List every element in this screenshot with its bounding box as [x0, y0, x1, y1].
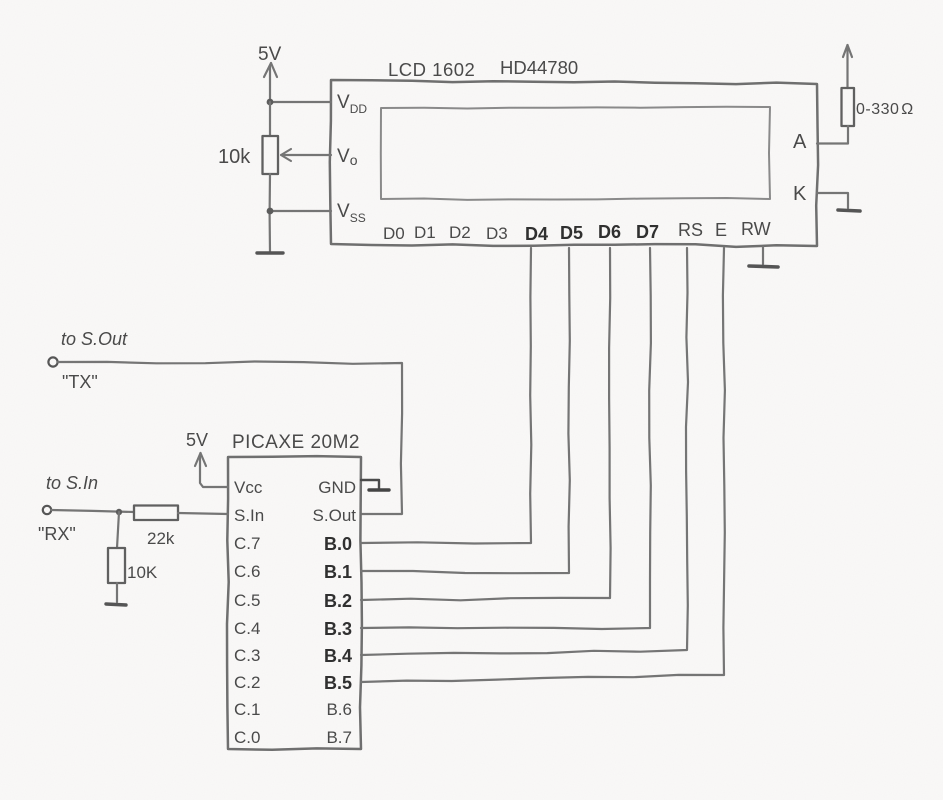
- svg-text:C.4: C.4: [234, 619, 260, 638]
- wire node to potentiometer top: [269, 102, 271, 136]
- IC U1 PICAXE 20M2 outline: [227, 456, 362, 750]
- potentiometer R1 10k body: [263, 136, 279, 174]
- node RX junction: [116, 509, 122, 515]
- resistor R2 0-330 body: [842, 88, 855, 126]
- LCD display window: [381, 107, 770, 200]
- ground (RW): [762, 247, 764, 264]
- wire GND pin stub: [361, 480, 379, 489]
- svg-text:B.0: B.0: [324, 534, 352, 554]
- svg-text:E: E: [715, 220, 727, 240]
- supply arrow (backlight): [843, 45, 848, 57]
- svg-text:B.2: B.2: [324, 591, 352, 611]
- ground (K): [838, 210, 860, 211]
- node VDD junction: [267, 99, 274, 106]
- svg-text:"TX": "TX": [62, 372, 98, 392]
- svg-text:D4: D4: [525, 224, 548, 244]
- wire 10K to ground: [116, 583, 118, 602]
- svg-text:GND: GND: [318, 478, 356, 497]
- svg-text:"RX": "RX": [38, 524, 76, 544]
- svg-text:D5: D5: [560, 223, 583, 243]
- terminal RX (open circle): [43, 506, 51, 514]
- wire B.3 to D7: [361, 248, 651, 629]
- svg-text:C.2: C.2: [234, 673, 260, 692]
- supply arrow 5V to Vcc: [195, 453, 201, 466]
- svg-text:5V: 5V: [258, 44, 282, 65]
- wire A to resistor: [817, 126, 848, 144]
- resistor R4 10K body: [108, 548, 125, 583]
- svg-text:C.3: C.3: [234, 646, 260, 665]
- svg-text:to S.Out: to S.Out: [61, 329, 128, 349]
- svg-text:5V: 5V: [186, 430, 208, 450]
- resistor R3 22k body: [134, 506, 178, 521]
- svg-text:C.7: C.7: [234, 534, 260, 553]
- wire TX to S.Out: [58, 362, 402, 515]
- svg-text:D7: D7: [636, 222, 659, 242]
- svg-text:S.Out: S.Out: [313, 506, 357, 525]
- svg-text:C.6: C.6: [234, 562, 260, 581]
- wire B.2 to D6: [361, 248, 611, 600]
- wire VSS to node: [270, 210, 331, 212]
- ground (GND pin): [369, 488, 389, 491]
- svg-text:Vcc: Vcc: [234, 478, 263, 497]
- svg-text:10k: 10k: [218, 146, 251, 168]
- wire RX to resistor 22k: [51, 510, 134, 512]
- wire node to resistor 10K: [117, 512, 119, 548]
- ground (potentiometer): [257, 251, 283, 254]
- svg-text:D2: D2: [449, 223, 471, 242]
- svg-text:PICAXE 20M2: PICAXE 20M2: [232, 432, 360, 453]
- svg-text:B.3: B.3: [324, 619, 352, 639]
- svg-text:A: A: [793, 131, 807, 153]
- potentiometer wiper arrow / wire Vo: [282, 154, 331, 156]
- svg-text:LCD 1602: LCD 1602: [388, 59, 475, 80]
- svg-text:D1: D1: [414, 223, 436, 242]
- svg-text:B.6: B.6: [326, 700, 352, 719]
- wire B.0 to D4: [361, 248, 531, 544]
- wire B.5 to E: [361, 248, 725, 682]
- svg-text:D6: D6: [598, 222, 621, 242]
- wire B.4 to RS: [361, 248, 688, 655]
- svg-text:C.5: C.5: [234, 591, 260, 610]
- svg-text:K: K: [793, 183, 807, 205]
- svg-text:B.1: B.1: [324, 562, 352, 582]
- node VSS junction: [267, 208, 274, 215]
- wire 5V to VDD: [270, 101, 331, 103]
- svg-text:C.0: C.0: [234, 728, 260, 747]
- svg-text:RS: RS: [678, 220, 703, 240]
- svg-text:D3: D3: [486, 224, 508, 243]
- supply arrow 5V: [264, 63, 271, 77]
- svg-text:0-330 Ω: 0-330 Ω: [856, 101, 914, 118]
- svg-text:22k: 22k: [147, 529, 175, 548]
- LCD module U2 (LCD 1602 HD44780) outline: [330, 80, 818, 247]
- svg-text:HD44780: HD44780: [500, 57, 578, 78]
- wire K to ground: [817, 193, 848, 208]
- svg-text:B.4: B.4: [324, 646, 352, 666]
- terminal TX (open circle): [48, 357, 57, 366]
- wire B.1 to D5: [361, 248, 570, 573]
- wire 22k to S.In: [178, 513, 228, 514]
- svg-text:B.7: B.7: [326, 728, 352, 747]
- wire potentiometer bottom to ground: [269, 174, 272, 253]
- svg-text:to S.In: to S.In: [46, 473, 98, 493]
- svg-text:B.5: B.5: [324, 673, 352, 693]
- svg-text:10K: 10K: [127, 563, 158, 582]
- svg-text:C.1: C.1: [234, 700, 260, 719]
- ground (10K): [106, 604, 126, 605]
- svg-text:D0: D0: [383, 224, 405, 243]
- svg-text:S.In: S.In: [234, 506, 264, 525]
- svg-text:RW: RW: [741, 219, 771, 239]
